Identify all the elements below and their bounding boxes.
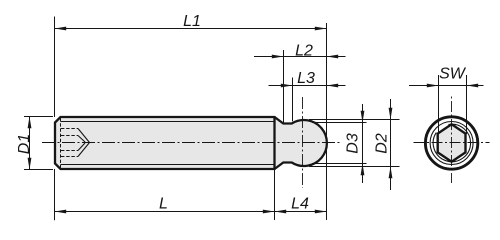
svg-text:SW: SW <box>439 66 467 83</box>
svg-text:L1: L1 <box>183 13 201 30</box>
svg-text:L4: L4 <box>291 196 309 213</box>
hex socket hidden line inner top <box>61 135 78 137</box>
svg-text:L2: L2 <box>295 43 313 60</box>
extension line for L4 below shoulder <box>274 169 276 220</box>
svg-text:L: L <box>159 196 168 213</box>
svg-text:D2: D2 <box>374 133 391 154</box>
shoulder line at thread end <box>273 116 275 170</box>
dimension D1 <box>16 117 53 170</box>
thread minor diameter line (bottom) <box>61 164 274 166</box>
svg-text:L3: L3 <box>297 70 315 87</box>
extension line right (shared by L1 L2 L3 L4) <box>326 23 328 220</box>
thread minor diameter line (top) <box>61 121 274 123</box>
chamfer edge vertical (dashed) at screw left end <box>60 118 62 168</box>
end view hex socket <box>438 124 466 162</box>
socket cone upper inner hidden line <box>78 136 85 143</box>
dimension L3 <box>269 70 346 87</box>
socket cone lower inner hidden line <box>78 143 85 151</box>
svg-text:D1: D1 <box>16 134 33 154</box>
extension line left (shared by L1 and L) <box>54 17 56 118</box>
horizontal centerline of side view <box>42 142 340 144</box>
dimension L4 <box>275 196 327 214</box>
end view thread root arc <box>433 124 470 161</box>
extension line for L3 at ball tangent <box>292 78 294 122</box>
hex socket hidden line outer top <box>61 128 78 130</box>
end view chamfer circle <box>430 122 473 165</box>
hex socket hidden line outer bottom <box>61 156 78 158</box>
dimension SW <box>409 66 484 135</box>
dimension L2 <box>254 43 346 60</box>
screw body silhouette (thread + neck + ball end), grey fill <box>55 117 327 169</box>
dimension L <box>55 196 275 214</box>
socket cone lower outer hidden line <box>78 143 90 157</box>
vertical centerline through ball <box>302 97 304 188</box>
end view outer circle (thread OD) <box>425 117 477 169</box>
dimension D3 <box>312 104 367 183</box>
dimension D2 <box>309 99 400 190</box>
socket cone upper outer hidden line <box>78 129 90 143</box>
dimension L1 <box>55 13 327 30</box>
svg-text:D3: D3 <box>345 133 362 154</box>
end view horizontal centerline <box>414 142 490 144</box>
end view vertical centerline <box>451 95 453 183</box>
extension line for L2 at neck start <box>283 50 285 123</box>
hex socket hidden line inner bottom <box>61 150 78 152</box>
